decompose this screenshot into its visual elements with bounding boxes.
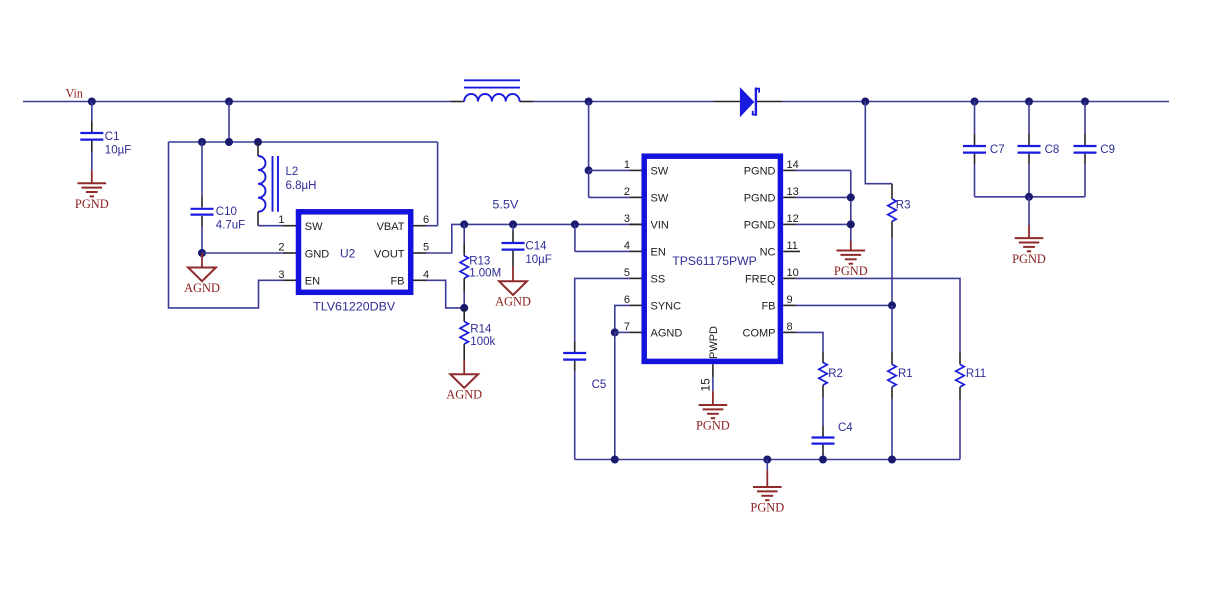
svg-text:PWPD: PWPD bbox=[708, 326, 720, 359]
wire - FB pin 4 of U2 down to divider bbox=[413, 280, 464, 308]
svg-text:PGND: PGND bbox=[696, 419, 730, 433]
inductor L1 (boost inductor on input rail) bbox=[464, 80, 520, 101]
svg-text:VOUT: VOUT bbox=[374, 248, 405, 260]
svg-text:13: 13 bbox=[787, 186, 799, 198]
svg-text:C4: C4 bbox=[838, 422, 853, 434]
svg-text:4: 4 bbox=[423, 269, 429, 281]
svg-text:8: 8 bbox=[787, 321, 793, 333]
wire - TLV61220 input net horizontal bbox=[169, 138, 438, 146]
svg-text:R14: R14 bbox=[470, 324, 492, 336]
node 5.5V label bbox=[492, 198, 518, 212]
resistor R11 bbox=[956, 364, 986, 459]
svg-text:PGND: PGND bbox=[744, 220, 776, 232]
svg-text:TPS61175PWP: TPS61175PWP bbox=[672, 254, 757, 268]
wire - SS pin 5 to soft-start capacitor C5 bbox=[575, 278, 630, 352]
svg-text:100k: 100k bbox=[470, 336, 495, 348]
svg-text:R11: R11 bbox=[966, 368, 986, 380]
svg-text:5: 5 bbox=[423, 242, 429, 254]
wire - AGND pin 7 net down to ground bus bbox=[611, 328, 630, 459]
wire - VOUT pin 5 to 5.5V rail bbox=[413, 220, 641, 253]
svg-text:C7: C7 bbox=[990, 144, 1005, 156]
svg-text:PGND: PGND bbox=[75, 197, 109, 211]
capacitor C10 bbox=[191, 206, 246, 232]
resistor R13 bbox=[460, 224, 501, 308]
svg-text:1: 1 bbox=[278, 214, 284, 226]
svg-text:R3: R3 bbox=[896, 200, 911, 212]
svg-text:EN: EN bbox=[651, 247, 666, 259]
svg-text:SYNC: SYNC bbox=[651, 301, 682, 313]
op-amp U1 TPS61175PWP body bbox=[644, 156, 780, 361]
wire - FB pin 9 net bbox=[796, 301, 897, 309]
ground AGND under C10/GND bbox=[184, 253, 220, 295]
wire - PGND pins 14,13,12 net bbox=[796, 170, 855, 241]
ground PGND under PWPD pad bbox=[696, 391, 730, 433]
svg-text:5: 5 bbox=[624, 267, 630, 279]
svg-text:COMP: COMP bbox=[743, 328, 776, 340]
wire - EN pin 4 up to 5.5V rail bbox=[575, 224, 630, 251]
ground PGND under output capacitors bbox=[1012, 225, 1046, 266]
wire - VBAT pin 6 up to input net bbox=[413, 142, 437, 226]
svg-text:12: 12 bbox=[787, 213, 799, 225]
resistor R2 bbox=[819, 363, 843, 426]
node Vin label bbox=[66, 87, 84, 101]
pin numbers U2 bbox=[278, 214, 429, 281]
svg-text:6.8µH: 6.8µH bbox=[286, 180, 317, 192]
svg-text:AGND: AGND bbox=[495, 295, 531, 309]
wire - inductor output to SW pins 1-2 bbox=[585, 98, 630, 198]
svg-text:10µF: 10µF bbox=[525, 254, 551, 266]
svg-text:PGND: PGND bbox=[744, 166, 776, 178]
svg-text:R1: R1 bbox=[898, 368, 913, 380]
wire - output rail to R3 bbox=[861, 98, 892, 199]
svg-text:U2: U2 bbox=[340, 247, 356, 261]
svg-text:SW: SW bbox=[651, 193, 669, 205]
svg-text:SW: SW bbox=[651, 166, 669, 178]
wire - analog/power ground bus bbox=[575, 456, 960, 464]
svg-text:2: 2 bbox=[278, 242, 284, 254]
svg-text:5.5V: 5.5V bbox=[492, 198, 518, 212]
svg-text:C10: C10 bbox=[216, 206, 237, 218]
wire - PWPD pin 15 pad bbox=[699, 364, 713, 391]
svg-text:PGND: PGND bbox=[750, 501, 784, 515]
svg-text:1: 1 bbox=[624, 159, 630, 171]
pin numbers TPS61175PWP bbox=[624, 159, 799, 333]
wire - enable loop (left side down to EN pin 3 of U2) bbox=[169, 142, 297, 308]
svg-text:6: 6 bbox=[624, 294, 630, 306]
svg-text:SS: SS bbox=[651, 274, 666, 286]
pin labels TPS61175PWP bbox=[651, 166, 776, 340]
svg-text:PGND: PGND bbox=[834, 264, 868, 278]
svg-text:11: 11 bbox=[787, 240, 798, 252]
wire - drop from rail to TLV61220 input net bbox=[225, 98, 233, 143]
capacitor C14 bbox=[502, 224, 552, 266]
svg-text:AGND: AGND bbox=[446, 388, 482, 402]
svg-text:R2: R2 bbox=[828, 368, 843, 380]
wire - C1 branch from input rail bbox=[88, 98, 96, 171]
svg-text:C1: C1 bbox=[105, 131, 120, 143]
wire - main input rail from Vin to output capacitors bbox=[23, 101, 1169, 103]
svg-text:R13: R13 bbox=[469, 255, 490, 267]
svg-text:14: 14 bbox=[787, 159, 799, 171]
capacitor C8 bbox=[1018, 144, 1060, 156]
wire - GND pin 2 net of U2 bbox=[198, 249, 296, 257]
svg-text:C5: C5 bbox=[592, 379, 607, 391]
capacitor C5 bbox=[563, 353, 606, 391]
svg-text:VBAT: VBAT bbox=[377, 221, 405, 233]
ground AGND under C14 bbox=[495, 266, 531, 309]
resistor R1 bbox=[888, 305, 913, 463]
svg-text:PGND: PGND bbox=[744, 193, 776, 205]
svg-text:2: 2 bbox=[624, 186, 630, 198]
svg-text:6: 6 bbox=[423, 214, 429, 226]
wire - C10 branch bbox=[201, 142, 203, 253]
pin stubs TPS61175PWP bbox=[630, 170, 801, 332]
svg-text:3: 3 bbox=[624, 213, 630, 225]
svg-text:L2: L2 bbox=[286, 166, 299, 178]
svg-text:Vin: Vin bbox=[66, 87, 84, 101]
svg-text:C8: C8 bbox=[1045, 144, 1060, 156]
svg-text:TLV61220DBV: TLV61220DBV bbox=[313, 300, 395, 314]
resistor R3 bbox=[888, 199, 911, 306]
ground PGND on ground bus bbox=[750, 456, 784, 515]
wire - SYNC pin 6 down to AGND net bbox=[615, 305, 630, 332]
svg-text:FREQ: FREQ bbox=[745, 274, 776, 286]
svg-text:10µF: 10µF bbox=[105, 145, 131, 157]
svg-text:3: 3 bbox=[278, 269, 284, 281]
wire - COMP pin 8 to compensation network bbox=[796, 332, 824, 363]
svg-text:9: 9 bbox=[787, 294, 793, 306]
svg-text:15: 15 bbox=[699, 378, 713, 392]
svg-text:1.00M: 1.00M bbox=[469, 267, 501, 279]
svg-text:4.7uF: 4.7uF bbox=[216, 219, 245, 231]
ground PGND under C1 bbox=[75, 170, 109, 211]
capacitor C1 bbox=[80, 131, 131, 157]
svg-text:VIN: VIN bbox=[651, 220, 669, 232]
pin labels U2 bbox=[305, 221, 405, 288]
diode D1 (Schottky rectifier) bbox=[740, 87, 759, 117]
svg-text:AGND: AGND bbox=[651, 328, 683, 340]
svg-text:C14: C14 bbox=[525, 240, 547, 252]
svg-text:AGND: AGND bbox=[184, 281, 220, 295]
wire - output capacitor branches bbox=[971, 98, 1090, 197]
capacitor C7 bbox=[963, 144, 1005, 156]
svg-text:7: 7 bbox=[624, 321, 630, 333]
node FB divider junction bbox=[460, 304, 468, 312]
svg-text:FB: FB bbox=[761, 301, 775, 313]
svg-text:NC: NC bbox=[760, 247, 776, 259]
ground AGND under R14 bbox=[446, 360, 482, 402]
ground PGND under pins 12-13 bbox=[834, 241, 868, 278]
wire - L2 to SW pin 1 of U2 bbox=[258, 212, 296, 226]
capacitor C9 bbox=[1074, 144, 1116, 156]
op-amp U2 TLV61220DBV body bbox=[299, 212, 411, 314]
wire - C5 to ground bus bbox=[574, 361, 576, 460]
svg-text:GND: GND bbox=[305, 248, 330, 260]
inductor L2 bbox=[258, 142, 316, 212]
capacitor C4 bbox=[812, 422, 854, 464]
svg-text:SW: SW bbox=[305, 221, 323, 233]
resistor R14 bbox=[460, 308, 495, 360]
svg-text:C9: C9 bbox=[1100, 144, 1115, 156]
wire - output capacitor ground bus bbox=[975, 193, 1086, 225]
svg-text:FB: FB bbox=[390, 276, 404, 288]
svg-text:10: 10 bbox=[787, 267, 799, 279]
svg-text:PGND: PGND bbox=[1012, 252, 1046, 266]
svg-text:EN: EN bbox=[305, 276, 320, 288]
wire - FREQ pin 10 to R11 bbox=[796, 278, 961, 364]
svg-text:4: 4 bbox=[624, 240, 630, 252]
